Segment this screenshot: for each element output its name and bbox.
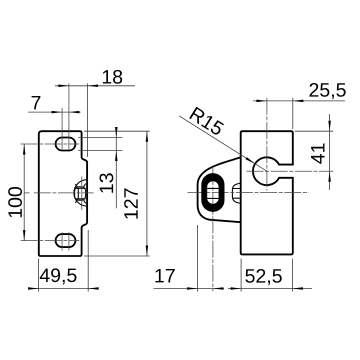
leader R15 line — [179, 116, 267, 171]
block outline with notch — [241, 131, 293, 254]
slot top centerline vertical left — [61, 108, 63, 150]
slot top centerline horizontal — [21, 143, 80, 145]
slot bottom centerline vertical left — [61, 232, 63, 250]
dim 100 text — [8, 187, 22, 217]
dimension 7 line — [28, 111, 81, 113]
dim 127 arrow bottom — [146, 246, 149, 257]
dim 25,5 text — [310, 83, 346, 99]
dim 13 arrow top — [115, 127, 118, 138]
dim 41 arrow bottom — [328, 171, 331, 182]
dim 18 text — [103, 70, 122, 84]
tab outline — [198, 157, 241, 222]
dim 18 arrow left — [58, 85, 69, 88]
dim 52,5 arrow left — [231, 287, 242, 290]
ext line slot bottom (13) — [78, 150, 122, 152]
dim 25,5 arrow left — [256, 100, 267, 103]
ext line plate left down (49,5) — [38, 259, 40, 292]
dim 13 arrow bottom — [115, 151, 118, 162]
boss side chords — [232, 189, 240, 199]
slot bottom centerline vertical right — [68, 232, 70, 250]
dim 25,5 arrow right — [293, 100, 304, 103]
dim 7 text — [32, 96, 41, 109]
ext line block top right (41) — [295, 130, 334, 132]
dim 49,5 arrow right — [88, 287, 99, 290]
dimension 13 line — [115, 128, 117, 209]
boss obround — [75, 187, 86, 200]
dim 13 text — [100, 173, 114, 192]
dim 41 arrow top — [328, 121, 331, 132]
dimension 18 line — [55, 85, 135, 87]
dimension 52,5 line — [228, 288, 312, 290]
boss side profile — [232, 183, 240, 203]
grommet centerline vertical (also ext for 17) — [212, 168, 214, 291]
clamp circle R15 — [253, 157, 279, 185]
dim 18 arrow right — [87, 85, 98, 88]
dim 7 arrow right — [69, 111, 80, 114]
dim 52,5 arrow right — [293, 287, 304, 290]
dim 100 arrow top — [23, 144, 26, 155]
circle centerline vertical (also ext for 25,5) — [266, 98, 268, 191]
dim 49,5 text — [40, 268, 77, 284]
dimension 100 line — [23, 144, 25, 241]
dim 100 arrow bottom — [23, 230, 26, 241]
ext line block right up (25,5) — [292, 98, 294, 129]
ext line protrusion right down (49,5) — [87, 230, 89, 292]
dim 41 text — [311, 144, 324, 164]
dim 49,5 arrow left — [28, 287, 38, 290]
slot top (obround) — [56, 138, 76, 151]
boss half-circle (middle feature) — [74, 180, 87, 206]
ext line slot top (13) — [78, 137, 122, 139]
ext line block right down (52,5) — [292, 259, 294, 292]
dim 127 text — [124, 189, 138, 219]
notch top edge — [279, 164, 293, 166]
ext line plate bottom (127) — [84, 255, 150, 257]
boss diagonals — [75, 184, 85, 204]
dim 127 arrow top — [146, 131, 149, 142]
dimension 49,5 line — [31, 288, 96, 290]
boss centerline horizontal — [24, 192, 93, 194]
leader R15 arrow — [246, 157, 256, 164]
ext line tab left down (17) — [197, 225, 199, 292]
slot bottom (obround) — [56, 234, 76, 247]
ext line protrusion edge up (18) — [86, 83, 88, 157]
dimension 17 line — [154, 288, 225, 290]
dim 17 arrow left — [187, 287, 198, 290]
dim 17 text — [155, 269, 174, 282]
dimension 41 line — [329, 114, 331, 190]
grommet centerline horizontal — [188, 192, 309, 194]
slot bottom centerline horizontal — [21, 240, 80, 242]
ext line plate top (127) — [84, 130, 150, 132]
dim 7 arrow left — [52, 111, 63, 114]
boss inner lines — [76, 188, 86, 199]
leader R15 text — [189, 107, 225, 136]
ext line block left down (52,5) — [240, 259, 242, 292]
dim 17 arrow right — [213, 287, 224, 290]
circle centerline horizontal (also ext for 41) — [247, 170, 334, 172]
dimension 127 line — [146, 131, 148, 256]
boss centerline vertical — [81, 177, 83, 210]
dim 52,5 text — [245, 269, 281, 285]
grommet ring (thick obround) — [201, 173, 224, 212]
dimension 25,5 line — [253, 100, 345, 102]
hole chords — [207, 188, 219, 198]
slot top centerline vertical right — [68, 83, 70, 149]
notch bottom edge — [279, 177, 293, 179]
plate outline — [39, 131, 87, 256]
